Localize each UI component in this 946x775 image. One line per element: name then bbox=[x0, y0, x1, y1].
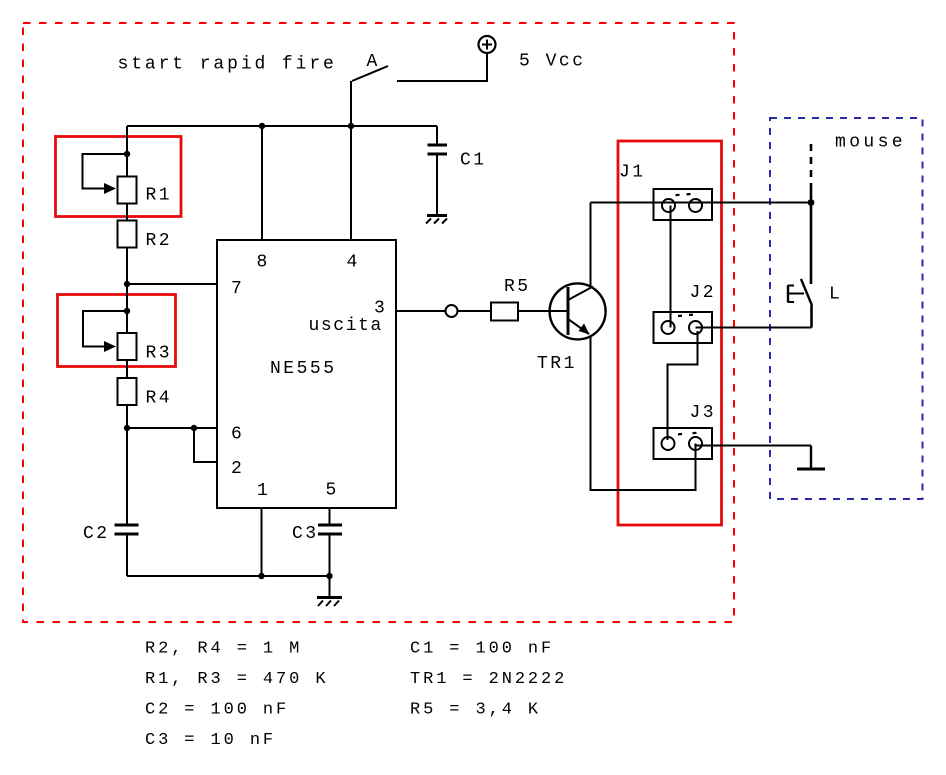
svg-text:2: 2 bbox=[231, 459, 244, 479]
wire: pin 1 to bottom rail bbox=[261, 508, 263, 576]
node dot rail pin4 bbox=[348, 123, 354, 129]
svg-text:J1: J1 bbox=[619, 163, 646, 183]
node dot rail pin8 bbox=[259, 123, 265, 129]
switch A blade bbox=[352, 66, 388, 81]
Vcc plus terminal bbox=[479, 36, 496, 53]
svg-text:R5: R5 bbox=[504, 277, 531, 297]
switch L bbox=[788, 279, 812, 328]
svg-text:R2: R2 bbox=[146, 231, 173, 251]
ground in mouse box bbox=[797, 446, 825, 470]
transistor TR1 bbox=[550, 283, 606, 339]
svg-text:uscita: uscita bbox=[309, 316, 383, 336]
svg-text:L: L bbox=[829, 285, 842, 305]
svg-text:R5 = 3,4 K: R5 = 3,4 K bbox=[410, 701, 541, 720]
svg-text:start rapid fire: start rapid fire bbox=[118, 55, 337, 75]
red highlight box around R1 bbox=[56, 137, 182, 217]
wire: node to R5 bbox=[458, 310, 492, 312]
svg-text:mouse: mouse bbox=[835, 133, 906, 153]
wire: pin 8 from rail bbox=[261, 126, 263, 240]
svg-text:C1 = 100 nF: C1 = 100 nF bbox=[410, 640, 554, 659]
wire: collector rail through J1 to mouse bbox=[591, 202, 812, 204]
wire: pin 5 to C3 bbox=[329, 508, 331, 524]
resistor R4 bbox=[118, 378, 137, 405]
wire: pin 4 from rail bbox=[350, 126, 352, 240]
capacitor C1 bbox=[428, 126, 448, 215]
svg-text:TR1: TR1 bbox=[537, 354, 577, 374]
connector J2 bbox=[654, 312, 713, 343]
svg-text:C1: C1 bbox=[460, 151, 487, 171]
svg-text:5: 5 bbox=[326, 481, 339, 501]
svg-text:A: A bbox=[367, 52, 380, 72]
svg-text:4: 4 bbox=[347, 253, 360, 273]
wire: top supply rail bbox=[127, 125, 437, 127]
wire: pin 2 branch bbox=[194, 428, 217, 462]
wire: J3 right pin to mouse ground bbox=[696, 445, 811, 447]
mouse dashed blue border bbox=[770, 118, 923, 499]
wire: pin 7 bbox=[127, 283, 217, 285]
node dot pin2 branch bbox=[191, 425, 197, 431]
wire: left vertical bus x=127 bbox=[126, 126, 128, 524]
svg-text:R2, R4 = 1 M: R2, R4 = 1 M bbox=[145, 640, 302, 659]
main circuit dashed red border bbox=[23, 23, 734, 622]
svg-text:NE555: NE555 bbox=[270, 359, 337, 379]
wire: R5 to base bbox=[518, 310, 568, 312]
node dot C3 ground bbox=[326, 573, 332, 579]
svg-text:5 Vcc: 5 Vcc bbox=[519, 52, 586, 72]
node dot pin6 bbox=[124, 425, 130, 431]
svg-text:J3: J3 bbox=[690, 403, 717, 423]
svg-text:C3: C3 bbox=[292, 524, 319, 544]
svg-text:1: 1 bbox=[257, 481, 270, 501]
node dot pin1 bottom rail bbox=[258, 573, 264, 579]
resistor R3 bbox=[118, 333, 137, 360]
potentiometer wiper loop R3 bbox=[83, 311, 127, 352]
wire: emitter down to J3 loop bbox=[591, 336, 696, 490]
wire: mouse node vertical to switch L bbox=[810, 187, 813, 284]
wire: bottom rail bbox=[127, 575, 330, 577]
dashed stub above mouse node bbox=[810, 144, 813, 187]
wire: J2 right pin to mouse switch bbox=[696, 327, 812, 329]
wire: pin 3 output bbox=[396, 310, 446, 312]
wire: switch A to Vcc bbox=[397, 53, 487, 81]
svg-text:8: 8 bbox=[257, 253, 270, 273]
resistor R5 bbox=[491, 303, 518, 321]
node dot pin7 bbox=[124, 281, 130, 287]
svg-text:TR1 = 2N2222: TR1 = 2N2222 bbox=[410, 670, 567, 689]
svg-text:R1: R1 bbox=[146, 186, 173, 206]
red highlight box around J1 J2 J3 bbox=[618, 141, 722, 525]
IC NE555 bbox=[217, 240, 396, 508]
svg-text:C2 = 100 nF: C2 = 100 nF bbox=[145, 701, 289, 720]
svg-text:6: 6 bbox=[231, 425, 244, 445]
potentiometer wiper loop R1 bbox=[83, 154, 128, 194]
svg-text:R3: R3 bbox=[146, 344, 173, 364]
capacitor C3 bbox=[318, 524, 342, 577]
connector J3 bbox=[654, 428, 713, 459]
node dot R1 wiper bbox=[124, 151, 130, 157]
node dot mouse button bbox=[808, 199, 815, 206]
svg-text:7: 7 bbox=[231, 279, 244, 299]
switch A stem bbox=[350, 81, 352, 126]
svg-text:R4: R4 bbox=[146, 389, 173, 409]
resistor R2 bbox=[118, 221, 137, 248]
svg-text:C2: C2 bbox=[83, 524, 110, 544]
resistor R1 bbox=[118, 177, 137, 204]
red highlight box around R3 bbox=[58, 295, 176, 367]
capacitor C2 bbox=[115, 524, 139, 536]
connector J1 bbox=[654, 189, 713, 220]
wire: C2 bottom to bottom rail bbox=[126, 536, 128, 577]
node dot R3 wiper bbox=[124, 308, 130, 314]
ground under C1 bbox=[426, 216, 447, 224]
svg-text:J2: J2 bbox=[690, 283, 717, 303]
ground at bottom rail bbox=[317, 576, 342, 606]
open node circle on output bbox=[446, 305, 458, 317]
wire: pin 6 bbox=[127, 427, 217, 429]
wire: J2 right pin step down to J3 left pin bbox=[668, 331, 698, 440]
wire: J1 left pin down to J2 left pin bbox=[670, 206, 672, 328]
wire: collector up bbox=[590, 203, 592, 289]
svg-text:C3 = 10 nF: C3 = 10 nF bbox=[145, 731, 276, 750]
svg-text:R1, R3 = 470 K: R1, R3 = 470 K bbox=[145, 670, 328, 689]
